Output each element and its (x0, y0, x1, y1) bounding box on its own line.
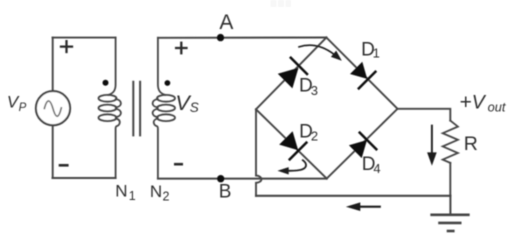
diode D2 triangle (279, 131, 298, 150)
node B dot (217, 175, 224, 182)
label N1 (115, 182, 136, 203)
transformer primary winding N1 (99, 38, 121, 178)
wire: resistor bottom to rail (449, 163, 451, 196)
svg-text:V: V (472, 92, 487, 114)
svg-text:2: 2 (163, 190, 170, 204)
svg-text:1: 1 (129, 189, 136, 203)
wire: right vertex to resistor top (398, 109, 451, 121)
bridge edge bottom-left (L vertex to B vertex) (256, 109, 327, 178)
svg-text:+: + (460, 91, 472, 114)
wire: secondary bottom to bridge bottom vertex (158, 178, 327, 180)
diode D2 cathode bar (290, 143, 307, 160)
svg-text:N: N (150, 182, 162, 201)
wire: primary loop bottom (53, 177, 116, 179)
current arrow through R (downward) (431, 126, 433, 154)
svg-text:R: R (464, 133, 478, 155)
label D1 (361, 40, 380, 61)
plus mark secondary (176, 43, 186, 53)
polarity dot primary (103, 80, 109, 86)
svg-text:4: 4 (373, 161, 380, 176)
label N2 (150, 182, 170, 203)
minus mark primary (60, 164, 67, 167)
bridge edge top-left (L vertex to T vertex) (256, 38, 326, 110)
svg-text:N: N (115, 182, 127, 201)
diode D3 cathode bar (291, 58, 307, 74)
current arrow through D2 (curved, bottom-left) (289, 160, 306, 171)
label VP (7, 92, 27, 114)
label D2 (299, 121, 318, 143)
wire: ground return rail (256, 195, 450, 197)
svg-text:1: 1 (373, 46, 380, 61)
transformer core (133, 82, 140, 136)
plus mark primary (61, 41, 72, 52)
label D4 (362, 154, 381, 176)
svg-text:2: 2 (311, 129, 318, 144)
diode D4 triangle (349, 140, 367, 158)
ground symbol (432, 196, 469, 231)
bridge edge top-right (T vertex to R vertex) (326, 38, 397, 109)
wire: primary loop left lower (52, 125, 54, 178)
AC source VP circle (36, 91, 70, 125)
svg-text:A: A (219, 11, 233, 34)
resistor R zigzag (443, 121, 458, 163)
svg-text:3: 3 (311, 83, 318, 98)
transformer secondary winding N2 (153, 38, 175, 179)
svg-text:B: B (219, 182, 232, 203)
label D3 (299, 75, 318, 98)
wire: primary loop top (53, 37, 116, 39)
label VS (175, 91, 198, 115)
wire: primary loop left upper (52, 38, 54, 92)
label +Vout (460, 91, 506, 115)
wire: secondary top to bridge top vertex (158, 37, 327, 39)
svg-text:S: S (190, 100, 199, 115)
minus mark secondary (175, 163, 181, 166)
node A dot (217, 34, 224, 41)
wire: left vertex down to ground rail with hop over B wire (256, 109, 261, 196)
diode D1 cathode bar (359, 72, 376, 89)
current arrow through D1 (curved, top) (299, 45, 335, 54)
current arrow return (below ground rail) (360, 206, 380, 208)
diode D4 cathode bar (360, 133, 377, 150)
AC source sine wave (44, 101, 61, 116)
svg-text:P: P (19, 102, 27, 114)
svg-text:out: out (488, 100, 506, 115)
bridge edge bottom-right (B vertex to R vertex) (327, 109, 398, 179)
diode D3 triangle (278, 68, 299, 89)
diode D1 triangle (350, 62, 367, 79)
faint cropped caption artifact (271, 0, 292, 7)
polarity dot secondary (165, 80, 171, 86)
